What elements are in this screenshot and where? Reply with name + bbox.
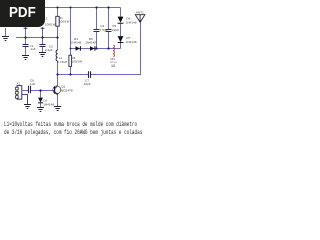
svg-text:1N4148: 1N4148 <box>126 40 137 44</box>
svg-text:1N4148: 1N4148 <box>71 41 82 45</box>
svg-text:.1uF: .1uF <box>30 47 36 51</box>
svg-text:22pF: 22pF <box>112 28 119 32</box>
svg-text:10: 10 <box>111 64 115 68</box>
svg-text:2.2pF: 2.2pF <box>45 48 53 52</box>
svg-text:100/1W: 100/1W <box>45 23 56 27</box>
svg-text:1N4148: 1N4148 <box>126 20 137 24</box>
svg-text:2: 2 <box>46 17 48 21</box>
svg-text:X1: X1 <box>17 81 21 85</box>
svg-text:2.74uH: 2.74uH <box>57 60 67 64</box>
svg-text:.1uF: .1uF <box>29 82 35 86</box>
svg-text:7.5pF: 7.5pF <box>100 28 108 32</box>
svg-text:BC547B: BC547B <box>61 89 73 93</box>
svg-text:100/1W: 100/1W <box>71 60 82 64</box>
svg-text:100/1W: 100/1W <box>59 20 70 24</box>
svg-text:1N4148: 1N4148 <box>85 41 96 45</box>
svg-text:22pF: 22pF <box>84 82 91 86</box>
svg-text:ANT1: ANT1 <box>136 10 144 14</box>
svg-text:1N4148: 1N4148 <box>43 102 54 106</box>
